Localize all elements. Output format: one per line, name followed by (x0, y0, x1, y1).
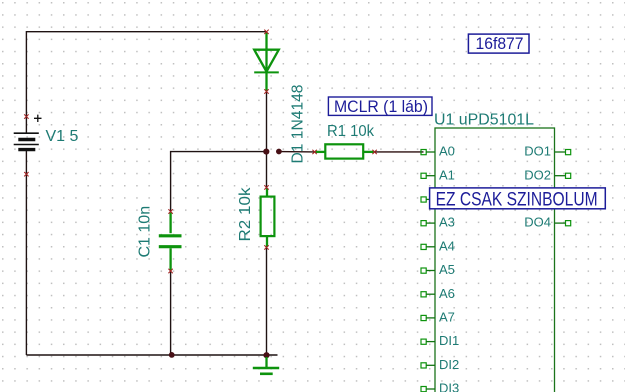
pin A6 (421, 286, 455, 301)
battery V1 (14, 115, 42, 150)
IC U1 uPD5101L body (435, 128, 555, 392)
junction node at diode/R2/R1 (263, 149, 269, 155)
svg-text:DI2: DI2 (439, 357, 459, 372)
svg-text:DI3: DI3 (439, 381, 459, 392)
diode D1 (254, 33, 279, 92)
junction node C1 at bottom rail (169, 352, 175, 358)
svg-text:DO4: DO4 (524, 215, 551, 230)
text box EZ CSAK SZINBOLUM (430, 188, 606, 209)
ground (253, 357, 279, 374)
wire bottom rail (26, 354, 277, 356)
svg-text:16f877: 16f877 (476, 34, 524, 53)
svg-text:DI1: DI1 (439, 333, 459, 348)
pin DI1 (421, 333, 459, 348)
pin end markers (red x) (24, 30, 377, 274)
svg-text:R1 10k: R1 10k (327, 123, 375, 140)
svg-text:R2 10k: R2 10k (237, 186, 254, 241)
pin A0 (421, 144, 455, 159)
wire R2 bottom to ground node (266, 247, 268, 355)
svg-text:C1 10n: C1 10n (137, 206, 154, 258)
resistor R2 (261, 188, 275, 247)
svg-text:A6: A6 (439, 286, 455, 301)
svg-text:V1 5: V1 5 (46, 128, 79, 145)
pin A1 (421, 167, 455, 182)
svg-text:U1 uPD5101L: U1 uPD5101L (434, 111, 534, 128)
wire diode bottom to node (266, 92, 268, 152)
pin A3 (421, 215, 455, 230)
svg-text:DO2: DO2 (524, 167, 551, 182)
svg-text:EZ CSAK SZINBOLUM: EZ CSAK SZINBOLUM (436, 189, 598, 211)
svg-text:A0: A0 (439, 144, 455, 159)
pin DO3 (555, 197, 571, 202)
pin A2 (421, 197, 435, 202)
capacitor C1 (159, 213, 182, 271)
text box MCLR (1 lab) (328, 97, 432, 115)
wire node to C1 top (171, 152, 267, 212)
svg-text:A4: A4 (439, 238, 455, 253)
pin DO4 (524, 215, 570, 230)
pin A5 (421, 262, 455, 277)
wire node to R2 top (266, 152, 268, 188)
pin A4 (421, 238, 455, 253)
resistor R1 (315, 144, 374, 158)
pin DO1 (524, 144, 570, 159)
wire battery top to diode top (top rail) (26, 32, 266, 133)
pin A7 (421, 310, 455, 325)
wire C1 bottom to rail (170, 271, 172, 355)
svg-text:DO1: DO1 (524, 144, 551, 159)
svg-text:MCLR (1 láb): MCLR (1 láb) (334, 97, 428, 116)
junction node ground at bottom rail (263, 352, 269, 358)
wire battery bottom to bottom rail (25, 149, 27, 355)
text box 16f877 (468, 34, 529, 53)
pin DO2 (524, 167, 570, 182)
svg-text:A3: A3 (439, 215, 455, 230)
pin DI3 (421, 381, 459, 392)
svg-text:A5: A5 (439, 262, 455, 277)
svg-text:A1: A1 (439, 167, 455, 182)
svg-text:A7: A7 (439, 310, 455, 325)
pin DI2 (421, 357, 459, 372)
svg-text:D1 1N4148: D1 1N4148 (290, 84, 307, 163)
junction node at R1 branch (276, 149, 282, 155)
wire node to R1 left (279, 151, 315, 153)
wire R1 right to U1 pin A0 (375, 151, 424, 153)
